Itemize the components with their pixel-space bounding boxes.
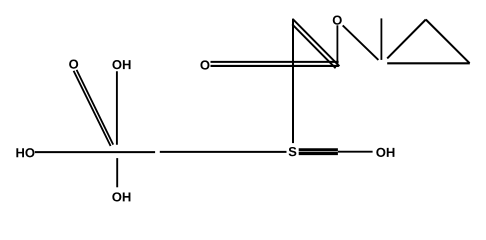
atom label S (sulfur) — [289, 147, 297, 156]
bond: ester O down to carbonyl carbon (vertical wire) — [336, 25, 338, 65]
bond: HO to central carbon (horizontal wire) — [35, 151, 155, 153]
atom label HO (left hydroxyl) — [16, 148, 34, 157]
double bond O= to central carbon, line 2 — [77, 70, 114, 145]
bond: OH-top down to central carbon (vertical wire) — [116, 71, 118, 145]
cyclopropane ring, left side — [387, 20, 426, 59]
bond: central carbon down to OH-bottom (vertical wire) — [116, 158, 118, 187]
bond: ester O to quaternary carbon (diagonal wire) — [343, 25, 379, 60]
vinyl double bond apex to carbonyl carbon, line 1 — [293, 19, 340, 66]
vinyl double bond apex to carbonyl carbon, line 2 — [292, 24, 335, 68]
atom label OH (bottom hydroxyl) — [112, 192, 130, 201]
heavy double bond from S, lower line — [299, 152, 338, 155]
bond: methyl group (vertical wire) — [380, 18, 382, 60]
carbonyl double bond O= horizontal, upper line — [211, 61, 339, 63]
atom label O (top carbonyl oxygen) — [200, 60, 209, 69]
bond: S up to apex carbon (long vertical wire) — [292, 19, 294, 144]
atom label O (left carbonyl oxygen) — [69, 60, 78, 69]
atom label OH (top hydroxyl) — [112, 60, 130, 69]
carbonyl double bond O= horizontal, lower line — [211, 65, 339, 67]
bond: to OH-right (horizontal wire) — [338, 151, 373, 153]
heavy double bond from S, upper line — [299, 148, 338, 151]
atom label O (ester oxygen) — [333, 16, 342, 25]
cyclopropane ring, base — [387, 62, 470, 64]
atom label OH (right hydroxyl) — [376, 148, 394, 157]
double bond O= to central carbon, line 1 — [74, 71, 111, 146]
cyclopropane ring, right side — [426, 20, 470, 64]
bond: chain carbon to S (horizontal wire) — [160, 151, 287, 153]
